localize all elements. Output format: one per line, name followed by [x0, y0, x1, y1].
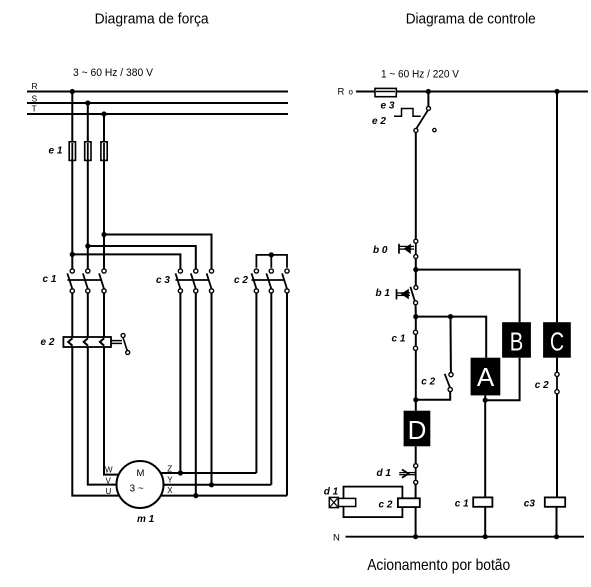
svg-text:d 1: d 1: [324, 486, 339, 497]
svg-text:Y: Y: [167, 476, 173, 485]
pushbutton b0: [414, 239, 418, 243]
contactor c1 pole1: [67, 269, 74, 293]
wire L3 vertical: [103, 114, 105, 269]
e2 actuator linkage: [111, 340, 122, 342]
wire B bottom to join: [485, 358, 519, 401]
box D: [404, 411, 431, 447]
node N main: [413, 534, 418, 539]
wire c1 pole2 down to V bend: [87, 293, 89, 339]
node branch T: [101, 232, 106, 237]
wire C bottom to c2 contact: [556, 358, 558, 373]
wire node to B coil branch: [416, 270, 520, 323]
svg-text:e 2: e 2: [372, 116, 386, 127]
svg-text:c 3: c 3: [156, 275, 170, 286]
wire node to D: [415, 400, 417, 411]
svg-text:R: R: [338, 87, 345, 98]
bus N: [346, 536, 585, 538]
c2 star bridge bar: [256, 255, 287, 268]
wire c1 coil to N: [484, 507, 486, 537]
bus line R: [27, 91, 288, 93]
svg-text:Acionamento por botão: Acionamento por botão: [367, 557, 510, 574]
node seal-in: [413, 267, 418, 272]
svg-text:c 2: c 2: [535, 380, 549, 391]
svg-text:D: D: [408, 415, 427, 445]
control bus R: [356, 91, 588, 93]
node2: [413, 314, 418, 319]
svg-text:e 2: e 2: [41, 337, 55, 348]
heater chevron pole1: [68, 338, 72, 346]
node R-C: [554, 89, 559, 94]
svg-text:V: V: [106, 476, 112, 485]
e2 trip linkage: [394, 109, 421, 117]
svg-text:U: U: [106, 487, 112, 496]
contactor c2 pole1: [252, 269, 259, 293]
node T tap: [101, 111, 106, 116]
heater chevron pole3: [100, 338, 104, 346]
svg-text:c 2: c 2: [379, 499, 393, 510]
wire L2 vertical: [87, 103, 89, 269]
node A-B join: [483, 398, 488, 403]
svg-text:A: A: [477, 362, 495, 392]
wire c2 pole1 down (Z end): [255, 293, 257, 473]
overload relay e2 body: [63, 337, 111, 347]
contactor c3 pole1: [176, 269, 183, 293]
pushbutton b1: [414, 286, 418, 290]
svg-text:b 0: b 0: [373, 245, 388, 256]
box B: [502, 322, 531, 358]
svg-text:R: R: [32, 81, 38, 91]
wire X: [161, 495, 287, 497]
wire b1 to node2: [415, 305, 417, 317]
node star point: [269, 252, 274, 257]
contactor c2 link bar: [252, 279, 284, 281]
svg-text:B: B: [510, 327, 524, 357]
svg-text:X: X: [167, 486, 173, 495]
svg-text:Diagrama de força: Diagrama de força: [95, 11, 210, 28]
fuse e1 pole2: [85, 142, 91, 161]
svg-text:o: o: [349, 87, 354, 96]
wire c1 pole3 down to W bend: [103, 293, 105, 339]
heater chevron pole2: [84, 338, 88, 346]
coil c2: [398, 498, 420, 507]
wire c3 coil to N: [556, 507, 558, 537]
motor m1: [117, 461, 164, 508]
fuse e1 pole1: [69, 142, 75, 161]
svg-text:c 2: c 2: [234, 275, 248, 286]
svg-text:c 1: c 1: [455, 498, 469, 509]
wire c3 pole1 down to Z line: [179, 293, 181, 473]
contactor c1 pole2: [83, 269, 90, 293]
wire branch S to c3 pole2: [88, 246, 196, 269]
svg-text:c 1: c 1: [392, 333, 406, 344]
wire D to d1: [415, 446, 417, 463]
wire e2 to b0: [415, 132, 417, 239]
wire coil c2 to N: [415, 507, 417, 537]
svg-text:m 1: m 1: [137, 514, 155, 525]
svg-text:3 ~ 60 Hz / 380 V: 3 ~ 60 Hz / 380 V: [73, 67, 154, 79]
box C: [543, 322, 571, 358]
box A: [471, 358, 501, 396]
node c3-Z: [178, 470, 183, 475]
contactor c3 link bar: [176, 279, 209, 281]
contactor c1 link bar: [67, 279, 101, 281]
timer d1 box: [329, 497, 338, 507]
wire c3 pole2 down to X line: [195, 293, 197, 496]
wire c2 pole3 down (X end): [286, 293, 288, 496]
fuse e3: [375, 88, 396, 96]
wire C branch: [556, 92, 558, 323]
svg-text:1 ~ 60 Hz / 220 V: 1 ~ 60 Hz / 220 V: [381, 69, 460, 81]
coil c1: [473, 497, 492, 506]
coil c3: [545, 497, 565, 506]
node R tap: [70, 89, 75, 94]
node R-e2: [426, 89, 431, 94]
svg-text:W: W: [105, 465, 113, 474]
node N c1: [483, 534, 488, 539]
wire branch R to c3 pole1: [72, 254, 180, 269]
contact c1 aux: [415, 317, 417, 400]
wire c2 contact to c3 coil: [556, 394, 558, 498]
wire Z: [162, 472, 257, 474]
wire L1 vertical: [71, 92, 73, 270]
e2 trip contact: [427, 92, 429, 107]
contact d1 timed: [414, 464, 418, 468]
svg-text:T: T: [32, 104, 37, 114]
contactor c1 pole3: [99, 269, 106, 293]
node D top: [413, 397, 418, 402]
node c3-X: [193, 493, 198, 498]
contact c2 aux branch: [450, 317, 452, 373]
wire Y: [164, 484, 272, 486]
svg-text:c 2: c 2: [421, 376, 435, 387]
wire c1 pole1 down to U bend: [71, 293, 73, 339]
contactor c3 pole2: [191, 269, 198, 293]
svg-text:c 1: c 1: [43, 274, 57, 285]
node N c3: [554, 534, 559, 539]
node branch S: [85, 243, 90, 248]
svg-text:c3: c3: [524, 498, 536, 509]
svg-text:Z: Z: [167, 465, 172, 474]
node branch R: [70, 252, 75, 257]
svg-text:d 1: d 1: [377, 468, 392, 479]
svg-text:b 1: b 1: [376, 288, 391, 299]
svg-text:e 3: e 3: [381, 101, 395, 112]
wire branch T to c3 pole3: [104, 235, 212, 270]
bus line T: [27, 113, 288, 115]
contact c2 under C: [555, 372, 559, 376]
fuse e1 pole3: [101, 142, 107, 161]
wire node2 to A branch: [416, 317, 486, 358]
timer group outline: [344, 487, 403, 517]
svg-text:e 1: e 1: [49, 146, 63, 157]
node c3-Y: [209, 482, 214, 487]
bus line S: [27, 102, 288, 104]
svg-text:M: M: [137, 468, 145, 479]
contactor c2 pole2: [266, 269, 273, 293]
wire c3 pole3 down to Y line: [211, 293, 213, 485]
wire c2 pole2 down (Y end): [270, 293, 272, 485]
node S tap: [85, 100, 90, 105]
wire d1 to coil c2: [415, 484, 417, 498]
contactor c3 pole3: [207, 269, 214, 293]
svg-text:3 ~: 3 ~: [130, 484, 144, 495]
wire b0 to node: [415, 259, 417, 288]
e2 trip lever: [123, 338, 127, 351]
svg-text:C: C: [550, 327, 564, 357]
svg-text:Diagrama de controle: Diagrama de controle: [406, 11, 536, 28]
svg-text:N: N: [333, 532, 340, 543]
node c2 branch tap: [448, 314, 453, 319]
contactor c2 pole3: [282, 269, 289, 293]
wire A branch bottom: [484, 395, 486, 497]
